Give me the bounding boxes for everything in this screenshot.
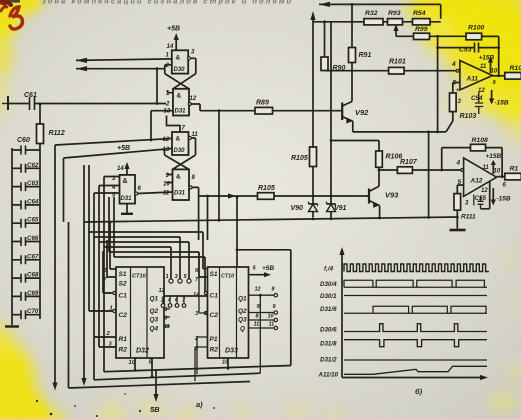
- svg-text:V91: V91: [334, 205, 347, 212]
- svg-text:14: 14: [193, 292, 200, 298]
- svg-text:1: 1: [110, 306, 113, 312]
- svg-text:5B: 5B: [150, 405, 160, 414]
- svg-text:11: 11: [163, 191, 170, 197]
- svg-text:10: 10: [163, 182, 170, 188]
- svg-text:5: 5: [453, 80, 457, 87]
- svg-text:D31/2: D31/2: [320, 357, 337, 364]
- svg-text:V93: V93: [385, 191, 399, 200]
- svg-text:10: 10: [222, 360, 229, 366]
- svg-text:14: 14: [117, 166, 124, 172]
- svg-text:C61: C61: [24, 92, 37, 99]
- svg-text:R54: R54: [413, 10, 426, 17]
- svg-text:+: +: [456, 88, 460, 94]
- svg-text:C53: C53: [459, 47, 472, 54]
- svg-text:S2: S2: [119, 281, 127, 288]
- svg-text:CT10: CT10: [221, 274, 234, 280]
- svg-text:D32: D32: [136, 348, 149, 355]
- svg-text:R93: R93: [388, 10, 401, 17]
- svg-text:R108: R108: [472, 137, 488, 144]
- svg-text:10: 10: [494, 169, 501, 175]
- svg-text:R1: R1: [119, 336, 128, 343]
- svg-text:R89: R89: [256, 100, 269, 107]
- svg-text:C60: C60: [17, 137, 30, 144]
- svg-text:S1: S1: [119, 271, 127, 278]
- svg-text:&: &: [176, 136, 181, 143]
- svg-text:11: 11: [483, 165, 490, 171]
- svg-text:б): б): [415, 387, 423, 396]
- svg-text:R112: R112: [49, 130, 65, 137]
- svg-text:11: 11: [164, 324, 169, 330]
- svg-text:D31/6: D31/6: [320, 306, 337, 313]
- svg-text:S1: S1: [210, 271, 218, 278]
- svg-text:R103: R103: [460, 113, 477, 120]
- svg-text:-15B: -15B: [495, 100, 509, 107]
- svg-text:-15B: -15B: [497, 196, 511, 203]
- svg-text:f,/4: f,/4: [324, 266, 334, 273]
- svg-text:+5B: +5B: [262, 265, 274, 272]
- svg-text:V90: V90: [291, 205, 304, 212]
- svg-text:11: 11: [192, 132, 199, 138]
- svg-text:C69: C69: [27, 290, 39, 297]
- svg-text:4: 4: [451, 61, 456, 68]
- svg-text:4: 4: [167, 298, 171, 304]
- svg-text:R99: R99: [415, 26, 428, 33]
- svg-text:D31/8: D31/8: [320, 341, 337, 348]
- svg-text:2: 2: [165, 63, 170, 69]
- svg-text:C2: C2: [119, 312, 128, 319]
- svg-text:4: 4: [456, 160, 461, 167]
- svg-text:+5B: +5B: [167, 26, 180, 33]
- svg-text:C66: C66: [27, 235, 39, 242]
- svg-text:2: 2: [165, 102, 170, 108]
- svg-text:C1: C1: [210, 293, 219, 300]
- svg-text:D31: D31: [121, 196, 133, 202]
- svg-text:A11/10: A11/10: [318, 372, 339, 379]
- svg-text:+15B: +15B: [479, 55, 495, 62]
- svg-text:R101: R101: [389, 59, 406, 66]
- svg-text:Q: Q: [240, 326, 245, 333]
- svg-text:D30: D30: [174, 148, 186, 154]
- svg-text:+5B: +5B: [117, 145, 130, 152]
- svg-text:D30: D30: [174, 67, 186, 73]
- svg-text:13: 13: [163, 147, 170, 153]
- svg-text:R105: R105: [291, 155, 308, 162]
- svg-text:R107: R107: [400, 159, 418, 166]
- svg-text:12: 12: [163, 137, 170, 143]
- svg-text:R105: R105: [258, 185, 275, 192]
- svg-text:C2: C2: [210, 312, 219, 319]
- svg-text:R90: R90: [333, 65, 346, 72]
- svg-text:C55: C55: [475, 195, 487, 202]
- svg-text:12: 12: [255, 287, 261, 293]
- svg-text:13: 13: [164, 109, 171, 115]
- svg-text:R10: R10: [510, 65, 521, 72]
- svg-text:Q3: Q3: [150, 317, 159, 324]
- svg-text:R32: R32: [365, 10, 378, 17]
- svg-text:C54: C54: [471, 95, 483, 102]
- svg-text:R1: R1: [510, 166, 519, 173]
- svg-text:C70: C70: [27, 308, 39, 315]
- svg-text:D33: D33: [225, 348, 238, 355]
- svg-text:A12: A12: [470, 178, 483, 185]
- svg-text:+15B: +15B: [486, 153, 502, 160]
- svg-text:10: 10: [129, 360, 136, 366]
- svg-text:Q1: Q1: [238, 296, 247, 303]
- svg-text:&: &: [123, 178, 128, 185]
- svg-text:9: 9: [165, 307, 168, 313]
- svg-text:D30/4: D30/4: [320, 281, 337, 288]
- svg-text:R2: R2: [210, 347, 219, 354]
- svg-text:&: &: [177, 93, 182, 100]
- svg-text:12: 12: [481, 188, 488, 194]
- svg-text:&: &: [176, 174, 181, 181]
- svg-text:D30/6: D30/6: [320, 327, 337, 334]
- svg-text:D30/1: D30/1: [320, 293, 337, 300]
- svg-text:D31: D31: [175, 109, 187, 115]
- svg-text:4: 4: [111, 185, 116, 191]
- svg-text:A11: A11: [466, 76, 479, 83]
- svg-text:Q2: Q2: [150, 308, 159, 315]
- svg-text:C65: C65: [27, 217, 39, 224]
- svg-text:&: &: [176, 55, 181, 62]
- svg-text:Q4: Q4: [150, 326, 159, 333]
- svg-text:D31: D31: [174, 191, 186, 197]
- svg-text:CT10: CT10: [132, 274, 147, 280]
- svg-text:10: 10: [268, 314, 274, 320]
- svg-text:11: 11: [254, 322, 260, 328]
- svg-text:R2: R2: [119, 347, 128, 354]
- svg-text:зона компенсации сигналов стр: зона компенсации сигналов строк и полями: [42, 0, 293, 6]
- svg-text:V92: V92: [355, 108, 369, 117]
- svg-text:P1: P1: [210, 336, 218, 343]
- svg-text:C68: C68: [27, 272, 39, 279]
- svg-text:12: 12: [190, 96, 197, 102]
- svg-text:14: 14: [167, 44, 174, 50]
- svg-text:R111: R111: [461, 214, 476, 221]
- svg-text:C63: C63: [27, 180, 39, 187]
- svg-text:11: 11: [269, 322, 275, 328]
- svg-text:12: 12: [478, 88, 485, 94]
- svg-text:C62: C62: [27, 162, 39, 169]
- svg-text:2: 2: [160, 298, 164, 304]
- svg-text:Q2: Q2: [238, 308, 247, 315]
- svg-text:5: 5: [458, 179, 462, 186]
- svg-text:1: 1: [166, 274, 169, 280]
- svg-text:Q1: Q1: [150, 296, 159, 303]
- svg-text:C1: C1: [119, 293, 128, 300]
- svg-text:R91: R91: [359, 52, 372, 59]
- svg-text:12: 12: [159, 288, 165, 294]
- svg-text:а): а): [196, 400, 203, 409]
- svg-text:R100: R100: [468, 25, 484, 32]
- svg-text:8: 8: [165, 316, 168, 322]
- svg-text:11: 11: [480, 64, 487, 70]
- svg-text:C67: C67: [27, 253, 39, 260]
- svg-text:Q3: Q3: [238, 317, 247, 324]
- svg-text:C64: C64: [27, 198, 39, 205]
- svg-text:10: 10: [491, 69, 498, 75]
